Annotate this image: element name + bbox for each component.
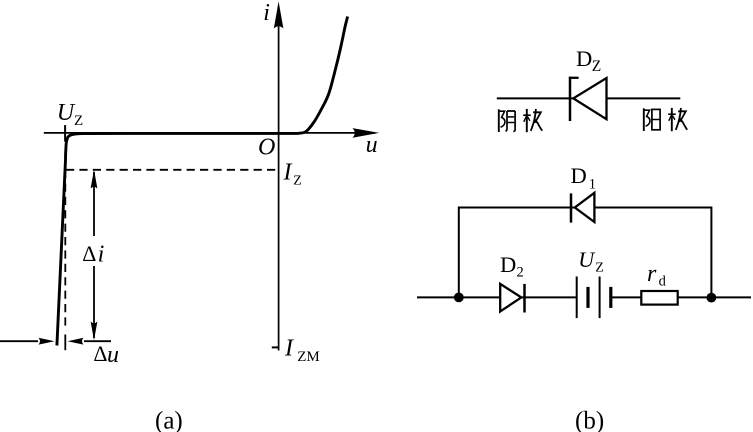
svg-text:D: D [571,163,587,188]
resistor r_d [641,291,677,305]
label 阳极 (anode) [644,108,687,131]
svg-text:Z: Z [592,58,601,75]
wire (zener symbol lead) [497,97,681,99]
svg-text:D: D [500,252,516,277]
label Δu [93,341,119,368]
Δu measurement line with arrows [0,338,111,345]
svg-text:u: u [107,342,119,368]
top branch wire (D1 branch) [459,207,712,209]
label I_Z [283,160,302,189]
u axis (horizontal) [44,128,379,138]
svg-text:I: I [283,160,293,186]
zener diode D_Z symbol [569,77,607,121]
svg-text:U: U [578,247,596,272]
diode D1 [571,193,594,223]
svg-text:r: r [647,261,657,287]
node (left junction dot) [454,293,464,303]
arrow Δi (double-headed vertical) [91,170,98,341]
label U_Z (battery value) [578,247,603,276]
svg-text:(a): (a) [155,408,183,432]
svg-text:Δ: Δ [82,241,96,266]
svg-text:1: 1 [589,176,596,192]
svg-text:(b): (b) [575,408,604,432]
svg-text:i: i [98,241,105,267]
label r_d [647,261,667,289]
svg-text:Z: Z [293,173,302,188]
svg-text:ZM: ZM [297,349,320,365]
svg-text:u: u [366,132,378,158]
bottom branch wire [417,296,751,298]
label D_1 [571,163,597,193]
label Δi [82,241,104,267]
label I_ZM [284,336,320,365]
label 阴极 (cathode) [499,109,542,132]
i axis (vertical) [274,2,284,351]
tick U_Z on u axis [64,125,66,142]
label U_Z [57,100,83,129]
battery U_Z (two cells) [577,277,611,319]
label D_2 [500,252,524,281]
diode D2 [500,284,524,313]
left vertical wire [458,207,460,298]
svg-text:Z: Z [595,260,604,275]
dashed line at I_Z level [66,169,279,171]
svg-text:O: O [258,135,275,161]
svg-text:D: D [576,46,592,71]
label D_Z [576,46,601,75]
svg-text:I: I [284,336,294,362]
dashed vertical line at U_Z [64,170,66,330]
node (right junction dot) [707,293,717,303]
zener diode characteristic curve [57,17,348,346]
svg-text:2: 2 [517,265,524,281]
svg-text:i: i [263,0,270,26]
svg-text:Z: Z [74,113,83,129]
svg-text:Δ: Δ [93,341,107,366]
svg-text:d: d [659,273,667,289]
right vertical wire [710,207,712,298]
svg-text:U: U [57,100,76,126]
tick I_ZM on i axis [272,346,279,348]
